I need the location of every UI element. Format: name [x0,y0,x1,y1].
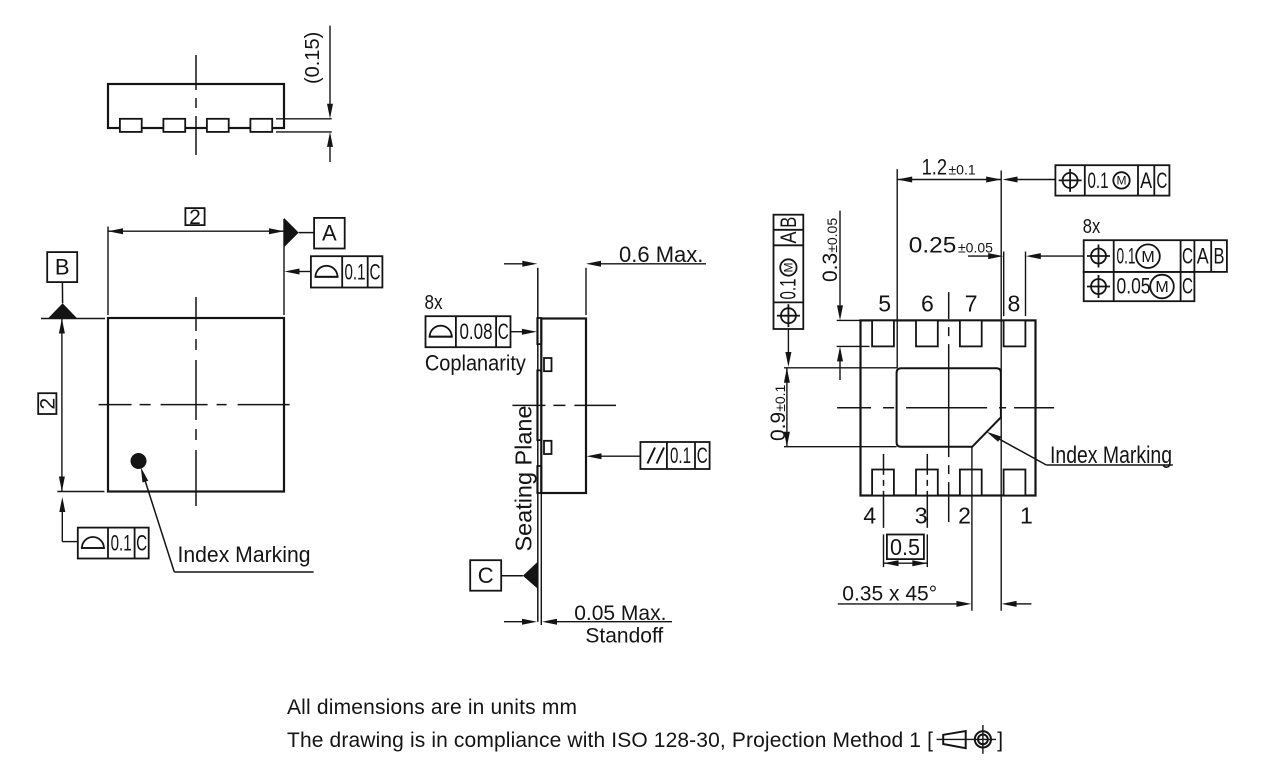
pin 3 [916,470,938,496]
feature control frame (profile 0.1 C, lower left) [59,497,148,559]
svg-text:Index Marking: Index Marking [1050,442,1172,469]
svg-text:0.25: 0.25 [909,233,957,258]
svg-text:5: 5 [878,291,891,317]
svg-text:±0.05: ±0.05 [958,240,993,256]
horizontal centerline (top view) [99,404,294,406]
lead 2 (side view) [163,119,185,132]
exposed pad with index chamfer [897,368,1001,447]
svg-text:0.05: 0.05 [1117,274,1151,299]
svg-text:All dimensions are in units mm: All dimensions are in units mm [287,696,577,719]
svg-text:C: C [1156,168,1167,193]
svg-text:±0.1: ±0.1 [949,162,976,178]
horizontal centerline (bottom view) [837,407,1056,409]
lead end pad B [544,441,552,454]
datum A [284,218,345,249]
lead profile tab 2 [537,370,541,440]
lead profile tab 3 [537,466,541,493]
horizontal centerline (side view) [512,404,616,406]
svg-text:0.5: 0.5 [890,534,920,560]
pin 2 [960,470,982,496]
feature control frame 8x coplanarity 0.08 C [425,292,537,376]
svg-text:C: C [136,531,147,556]
svg-text:C: C [498,319,509,344]
svg-text:0.1: 0.1 [1088,168,1109,193]
datum C [470,560,538,591]
pin 4 centerline [883,454,885,528]
Seating Plane label [511,406,537,552]
svg-text:C: C [697,443,708,468]
lead 4 (side view) [250,119,272,132]
svg-text:M: M [782,263,796,273]
package body (bottom view) [861,320,1036,495]
lead 3 (side view) [207,119,229,132]
lead 1 (side view) [120,119,142,132]
svg-text:8x: 8x [425,292,443,314]
svg-text:0.1: 0.1 [1117,244,1136,269]
dimension 0.3 +/-0.05 (lead length) [819,211,870,380]
dimension 0.5 (pitch, boxed basic) [884,534,928,567]
lead end pad A [544,358,552,371]
svg-text:B: B [55,255,70,280]
svg-text:8x: 8x [1083,216,1101,238]
note line 1 [287,696,577,719]
svg-text:0.1: 0.1 [345,259,366,284]
feature control frame position 0.1 M A C (top) [1003,165,1170,195]
svg-text:A: A [322,221,337,246]
pin numbers bottom row [863,502,1032,528]
dimension 0.05 Max. standoff [504,602,672,648]
svg-text:7: 7 [965,291,978,317]
feature control frame parallelism 0.1 C [587,442,710,469]
svg-text:2: 2 [958,502,971,528]
package body (rotated side view) [541,319,586,494]
svg-text:Standoff: Standoff [585,625,663,648]
svg-text:0.1: 0.1 [670,443,691,468]
pin 8 [1004,320,1026,346]
svg-text:Coplanarity: Coplanarity [425,351,526,376]
seating plane line [537,268,539,622]
svg-text:A: A [1197,244,1209,269]
svg-text:C: C [1182,244,1193,269]
dimension 2 (height, boxed) [37,319,106,492]
pin 1 [1004,470,1026,496]
svg-text:B: B [1214,244,1225,269]
pin 3 centerline [926,454,928,528]
dimension (0.15) lead thickness [276,26,333,162]
pin numbers top row [878,291,1020,317]
note line 2 with projection symbol [287,729,1003,752]
svg-text:6: 6 [921,291,934,317]
svg-text:The drawing is in compliance w: The drawing is in compliance with ISO 12… [287,729,933,752]
svg-text:1.2: 1.2 [922,155,948,180]
svg-text:C: C [478,563,494,588]
pin 5 [872,320,894,346]
dimension 0.9 +/-0.1 (pad height) [767,368,897,447]
dimension 1.2 +/-0.1 (pad width) [897,155,1001,372]
dimension 0.6 Max. (package height) [504,242,706,315]
svg-text:3: 3 [915,502,928,528]
datum B [47,252,77,318]
svg-text:4: 4 [863,502,876,528]
dimension 0.35 x 45 (chamfer) [838,417,1032,610]
svg-text:C: C [370,259,381,284]
svg-text:1: 1 [1020,502,1033,528]
svg-text:]: ] [997,729,1003,752]
pin 7 [960,320,982,346]
svg-text:0.05 Max.: 0.05 Max. [574,602,666,625]
lead profile tab 1 [537,318,541,344]
svg-text:Seating Plane: Seating Plane [511,406,537,552]
pin 6 [916,320,938,346]
package body (top view) [108,318,284,492]
svg-text:8: 8 [1008,291,1021,317]
svg-text:A: A [776,231,801,243]
index marking dot [131,453,147,469]
index marking leader + label (bottom view) [987,432,1173,469]
svg-text:2: 2 [189,206,201,229]
svg-text:2: 2 [37,398,60,410]
svg-text:M: M [1117,174,1127,188]
svg-text:B: B [776,217,801,228]
svg-text:M: M [1155,279,1168,296]
vertical centerline (bottom view) [948,292,950,522]
svg-text:0.35 x 45°: 0.35 x 45° [842,582,937,605]
dimension 2 (width, boxed) [108,206,284,315]
package body (side view) [108,84,284,128]
svg-text:Index Marking: Index Marking [178,542,311,567]
feature control frame 8x position (double, right) [1083,216,1227,301]
svg-text:0.08: 0.08 [460,319,493,344]
body edge extension line (standoff) [540,493,542,625]
vertical centerline (top view) [195,297,197,506]
feature control frame position 0.1 M A B (rotated, left) [774,215,804,367]
index marking leader + label (top view) [141,467,314,572]
vertical centerline of side view [195,55,197,155]
feature control frame (profile 0.1 C, upper right) [285,256,383,287]
pin 4 [872,470,894,496]
svg-text:0.1: 0.1 [111,531,132,556]
svg-text:(0.15): (0.15) [302,32,324,84]
svg-text:0.6 Max.: 0.6 Max. [619,242,703,267]
svg-text:A: A [1140,168,1152,193]
svg-text:M: M [1141,249,1154,266]
first angle projection symbol [937,725,996,754]
dimension 0.25 +/-0.05 (pin width) [909,233,1084,317]
svg-text:C: C [1182,274,1193,299]
svg-text:0.1: 0.1 [776,279,801,300]
